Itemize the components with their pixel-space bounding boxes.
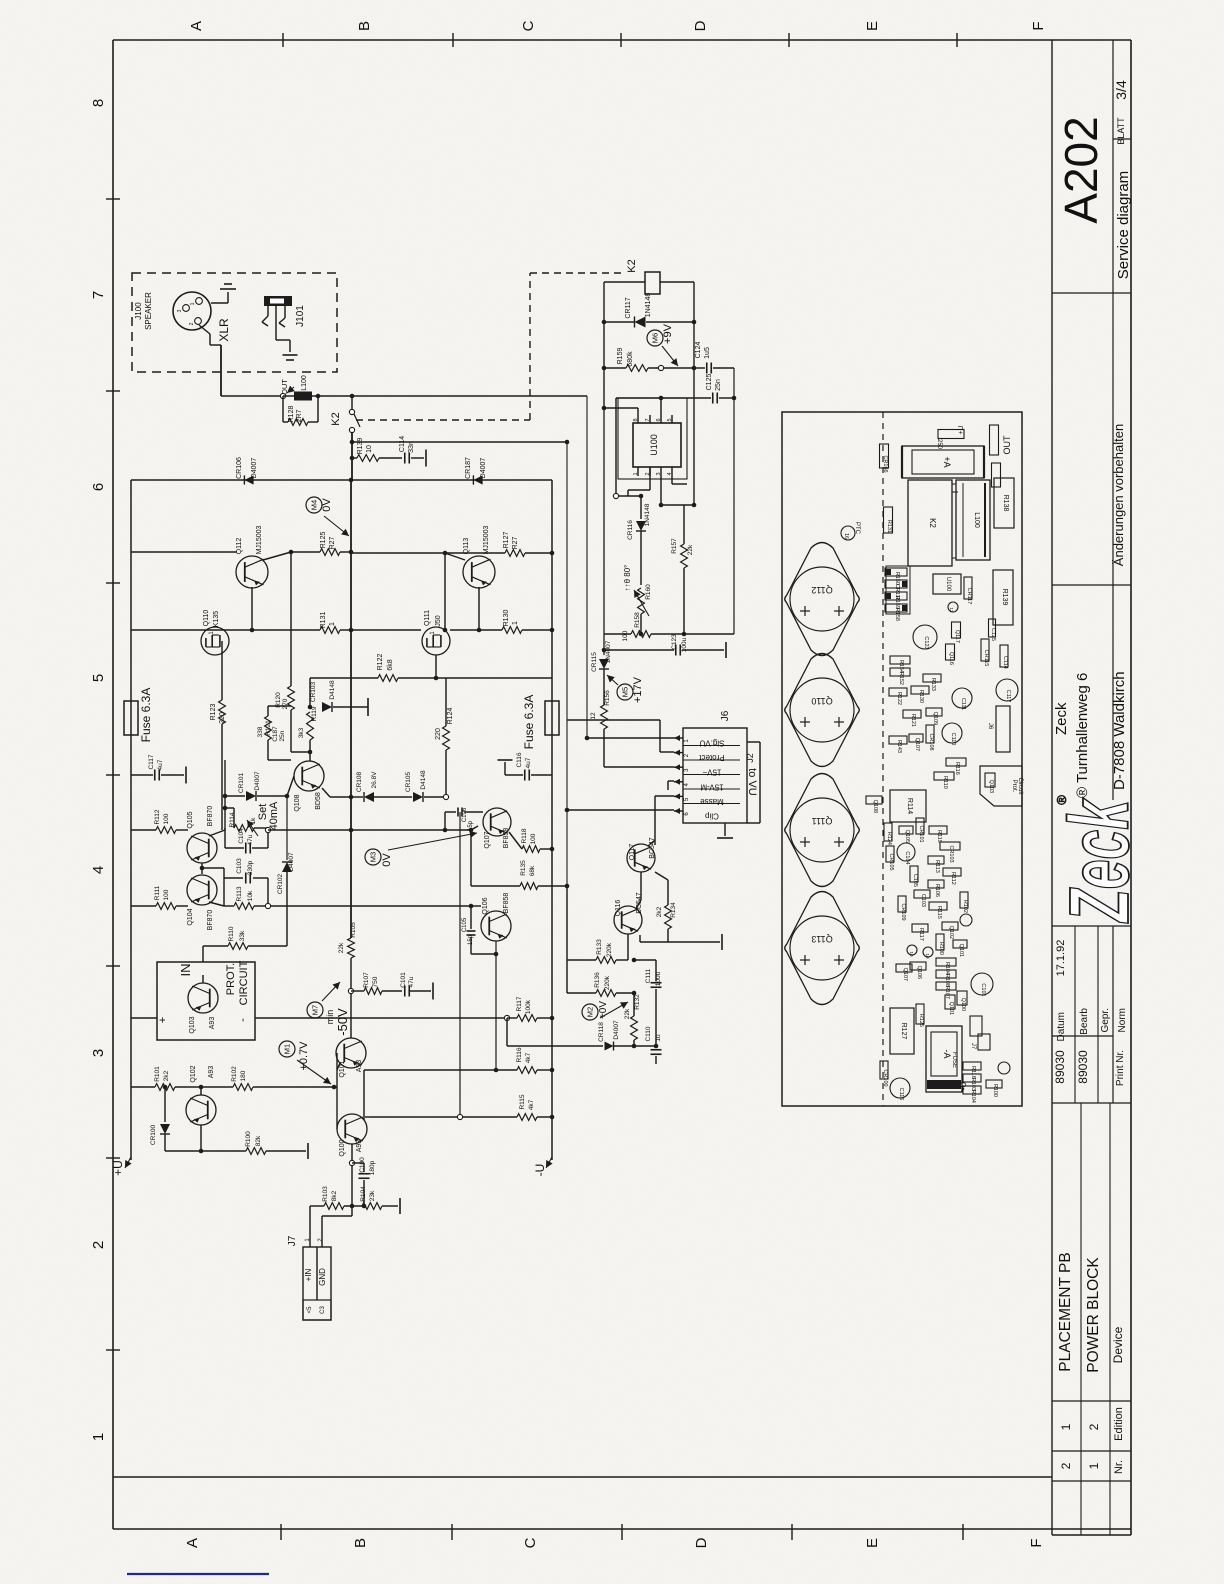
wire base row y830 [131,829,156,831]
svg-text:3: 3 [90,1049,107,1057]
svg-text:2k2: 2k2 [656,906,663,917]
wire R117 loop [506,1018,508,1046]
placement part R107 [936,982,956,990]
svg-text:D: D [693,1537,710,1548]
svg-text:R111: R111 [154,885,161,900]
svg-text:750: 750 [372,976,379,987]
svg-text:R102: R102 [962,900,968,913]
svg-text:C116: C116 [898,1088,904,1101]
placement part CR100 [880,1061,888,1079]
svg-text:Q113: Q113 [463,538,470,555]
wire k2 right rail [693,282,695,505]
svg-text:C114: C114 [399,436,406,452]
title block grid [1051,40,1053,1535]
svg-text:6: 6 [90,483,107,491]
svg-text:J6: J6 [987,723,993,730]
svg-text:MJ15003: MJ15003 [256,525,263,554]
svg-text:C111: C111 [960,698,966,710]
svg-text:C114: C114 [1002,656,1008,669]
svg-text:Q110: Q110 [203,610,210,627]
placement part Q107 [909,734,923,742]
svg-text:8: 8 [90,99,107,107]
placement part R115 [929,902,947,910]
svg-text:R101: R101 [154,1066,161,1082]
svg-text:220k: 220k [604,975,611,990]
placement part C114 [1000,645,1008,667]
wire +rail top [131,479,552,481]
svg-text:U100: U100 [649,434,659,456]
svg-text:89030: 89030 [1053,1050,1067,1084]
svg-text:1u5: 1u5 [704,347,711,359]
svg-text:D4007: D4007 [480,458,487,479]
svg-text:A93: A93 [209,1017,216,1030]
svg-text:C103: C103 [920,894,926,907]
placement transistor Q112 TO-3 [785,543,860,656]
svg-text:338: 338 [257,726,264,737]
svg-text:8: 8 [633,418,639,421]
wire XLR pin2 out [199,325,210,334]
svg-text:R116: R116 [516,1047,523,1062]
svg-text:Q103: Q103 [988,780,994,793]
svg-text:R121: R121 [910,714,916,727]
svg-text:Sig.VU: Sig.VU [699,739,724,748]
svg-text:R158: R158 [634,612,641,628]
svg-text:J100: J100 [134,302,143,320]
ground at R100 [307,1143,309,1159]
svg-text:CR109: CR109 [900,903,906,920]
placement part Q101 [953,940,967,948]
svg-text:C123: C123 [671,634,678,650]
svg-text:Protect: Protect [699,753,725,762]
svg-text:C124: C124 [695,342,702,359]
svg-text:3: 3 [177,309,183,312]
placement part R158 [885,604,907,612]
svg-text:J7: J7 [287,1235,298,1246]
placement part R100 [936,934,944,950]
svg-text:CR108: CR108 [928,733,934,750]
svg-text:R105: R105 [350,922,357,938]
svg-text:M5: M5 [621,687,630,697]
wire Q111 source [435,655,437,678]
svg-text:CR101: CR101 [918,825,924,842]
svg-text:A: A [184,1538,201,1548]
svg-text:C105: C105 [462,917,468,932]
placement part CR109 [898,896,906,912]
svg-text:-50V: -50V [335,1008,350,1036]
svg-text:C187: C187 [272,726,279,742]
svg-text:Nr.: Nr. [1113,1460,1125,1474]
svg-text:R112: R112 [950,872,956,885]
svg-text:Q102: Q102 [948,926,954,939]
svg-text:R130: R130 [918,690,924,703]
wire Protect line [566,442,568,720]
svg-text:Zeck: Zeck [1052,797,1146,923]
svg-text:Q109: Q109 [932,712,938,725]
svg-text:R102: R102 [231,1066,238,1082]
placement part C110 [942,723,962,743]
svg-text:C103: C103 [236,858,243,874]
svg-text:D4007: D4007 [613,1020,620,1040]
placement part CR111 [885,580,907,588]
svg-text:PTC: PTC [854,522,860,535]
svg-text:R112: R112 [154,809,161,824]
svg-text:+9V: +9V [662,323,674,344]
svg-text:C125: C125 [706,374,713,391]
svg-text:E: E [864,1538,881,1548]
svg-text:C: C [522,1537,539,1548]
placement dashed divider [882,412,884,1106]
svg-text:C117: C117 [1005,690,1011,703]
svg-text:C117: C117 [148,754,155,769]
svg-text:CR115: CR115 [983,650,989,667]
svg-text:220: 220 [435,728,442,740]
svg-text:BF870: BF870 [207,910,214,931]
svg-text:+: + [157,1017,169,1023]
placement part R100 [986,1080,1002,1088]
svg-text:33k: 33k [239,930,246,941]
placement L100 [956,480,990,560]
svg-text:CR116: CR116 [627,520,634,540]
svg-text:3k3: 3k3 [298,727,305,738]
svg-text:K2: K2 [330,412,342,425]
svg-text:6k8: 6k8 [387,659,394,670]
svg-text:M3: M3 [369,852,378,862]
svg-text:C104: C104 [904,851,910,864]
svg-text:C116: C116 [516,752,523,767]
test point M5 +17V [617,684,633,700]
placement part C104 [897,843,915,861]
placement part R131 [884,507,893,533]
svg-text:CR108: CR108 [356,771,363,792]
placement part Q103 [985,773,995,787]
wire row y1018 [131,1017,157,1019]
wire Sig.VU line [352,395,587,397]
svg-text:Q107: Q107 [902,968,908,981]
svg-text:A: A [188,21,205,31]
svg-text:Q100: Q100 [960,998,966,1011]
svg-text:PLACEMENT PB: PLACEMENT PB [1057,1252,1074,1371]
svg-text:BLATT: BLATT [1116,117,1126,145]
placement part C116 [890,1078,910,1098]
svg-text:J6: J6 [720,710,731,721]
placement R127 [890,1008,914,1054]
svg-text:POWER BLOCK: POWER BLOCK [1085,1257,1102,1373]
placement part C105 [910,866,918,882]
svg-text:+0.7V: +0.7V [298,1041,310,1071]
svg-text:17.1.92: 17.1.92 [1055,940,1067,977]
placement part R106 [928,880,944,888]
svg-text:2: 2 [90,1241,107,1249]
svg-text:1: 1 [90,1433,107,1441]
svg-text:R116: R116 [954,762,960,775]
connector J101 jack [264,296,292,306]
svg-text:BF858: BF858 [503,828,510,849]
svg-text:R114: R114 [906,798,913,814]
svg-text:+IN: +IN [304,1268,313,1281]
svg-text:C105: C105 [912,874,918,887]
connector area dashed box [132,273,337,372]
wire out row y830 right [287,829,351,831]
svg-text:FUSE: FUSE [951,1052,957,1068]
svg-text:2k2: 2k2 [163,1070,170,1081]
svg-text:R115: R115 [519,1094,526,1109]
svg-text:Bearb: Bearb [1079,1008,1090,1035]
svg-text:R124: R124 [447,708,454,725]
svg-text:100: 100 [163,813,170,824]
wire XLR pin1 to ground [211,302,228,304]
wire base row y906 [131,905,156,907]
svg-text:100: 100 [163,889,170,900]
svg-text:R124: R124 [886,832,892,845]
placement part R159 [885,592,907,600]
svg-text:R110: R110 [942,776,948,789]
svg-text:M4: M4 [310,500,319,510]
svg-text:R127: R127 [900,1023,907,1040]
svg-text:1N4148: 1N4148 [645,293,652,318]
svg-text:Masse: Masse [700,797,724,806]
svg-text:PROT.: PROT. [225,963,237,995]
svg-text:Q101: Q101 [948,1002,954,1015]
svg-text:5: 5 [90,674,107,682]
svg-text:R131: R131 [320,612,327,629]
svg-text:R159: R159 [617,348,624,365]
svg-text:K2: K2 [626,259,638,272]
placement part Q101 [945,995,955,1009]
svg-text:CR166: CR166 [882,455,888,472]
svg-text:1: 1 [512,621,519,625]
svg-text:CR115: CR115 [591,652,598,672]
svg-text:R125: R125 [320,532,327,549]
svg-text:C125: C125 [990,628,996,641]
svg-text:10k: 10k [247,890,254,901]
svg-text:4: 4 [667,472,673,475]
svg-text:Q104: Q104 [187,908,194,925]
svg-text:6: 6 [656,418,662,421]
placement part Q105 [899,826,913,834]
placement part C125 [989,619,996,637]
test point M1 +0.7V [279,1041,295,1057]
placement part R121 [903,710,921,718]
svg-text:Q105: Q105 [187,811,194,828]
placement part Q100 [957,991,967,1005]
placement part C123 [913,625,937,649]
wire OUT sense line [352,441,567,443]
placement transistor Q110 TO-3 [785,654,860,767]
svg-text:-: - [237,1018,249,1022]
svg-text:R106: R106 [934,884,940,897]
placement prot circuit [980,766,1022,806]
svg-text:CR106: CR106 [236,457,243,479]
svg-text:R125: R125 [918,1014,924,1027]
placement part Q109 [926,708,942,716]
svg-text:C104: C104 [238,828,245,844]
svg-text:R119: R119 [936,830,942,843]
placement part R124 [884,823,892,841]
placement part R103 [963,1074,981,1082]
svg-text:Q105: Q105 [904,830,910,843]
placement part R154 [890,656,910,664]
svg-text:M2: M2 [586,1007,595,1017]
scan artifact blue line [127,1573,269,1575]
svg-text:89030: 89030 [1076,1050,1090,1084]
svg-text:D4148: D4148 [420,770,427,790]
svg-text:2: 2 [1059,1462,1073,1469]
placement part R112 [943,868,961,876]
svg-text:7: 7 [645,418,651,421]
svg-text:-A: -A [942,1050,952,1059]
svg-text:L100: L100 [973,512,980,528]
ground at R104 [399,1198,401,1214]
svg-text:R130: R130 [503,610,510,627]
svg-text:CR103: CR103 [948,845,954,862]
placement part CR108 [926,725,934,743]
wire U100 pins [616,397,661,399]
svg-text:SPEAKER: SPEAKER [144,292,153,330]
IC U100 [618,398,687,479]
connector J100 XLR [173,292,211,330]
placement part C103 [914,890,930,898]
svg-text:D4007: D4007 [251,458,258,479]
svg-text:Norm: Norm [1117,1008,1128,1032]
svg-text:R139: R139 [1001,589,1008,606]
svg-text:R107: R107 [363,972,370,988]
svg-text:BF858: BF858 [503,893,510,914]
svg-text:M7: M7 [311,1005,320,1015]
svg-text:OUT: OUT [1002,435,1012,455]
svg-text:15V~: 15V~ [702,768,721,777]
svg-text:68k: 68k [529,865,536,876]
placement part CR117 [964,577,972,599]
svg-text:Clip: Clip [705,812,719,821]
test point M7 min -50V [307,1002,323,1018]
svg-text:Circuit: Circuit [1017,777,1023,794]
svg-text:R100: R100 [992,1084,998,1097]
svg-text:1: 1 [633,472,639,475]
wire Q112 emitter [290,552,292,630]
svg-text:Q107: Q107 [914,738,920,751]
svg-text:Prot.: Prot. [1011,780,1017,793]
svg-text:min: min [325,1010,335,1025]
svg-text:Änderungen vorbehalten: Änderungen vorbehalten [1111,424,1126,566]
placement part R113 [928,856,944,864]
svg-text:25n: 25n [715,379,722,391]
svg-text:Q111: Q111 [424,610,431,626]
svg-text:R143: R143 [896,740,902,753]
svg-text:Edition: Edition [1113,1407,1125,1441]
svg-text:C101: C101 [400,972,407,988]
svg-text:CR117: CR117 [625,297,632,318]
placement part R110 [934,772,954,780]
svg-text:R100: R100 [938,942,944,955]
placement relay K2 [908,480,952,566]
svg-text:B: B [356,21,373,31]
test point M3 0V [365,849,381,865]
svg-text:5: 5 [667,418,673,421]
svg-text:Q112: Q112 [236,538,243,555]
svg-text:J101: J101 [295,305,306,327]
placement part CR101 [916,818,924,834]
wire Q106 emitter down [495,941,497,1070]
ground at C101 [432,983,434,1000]
fuse F2 6.3A right [545,701,559,735]
placement part CR166 [880,444,889,468]
dashed link to relay K2 [356,419,530,421]
svg-text:10: 10 [909,951,914,957]
svg-text:0V: 0V [321,498,333,512]
svg-text:C110: C110 [950,733,956,746]
svg-text:C123: C123 [923,636,929,649]
placement part CR103 [940,842,960,850]
svg-text:CR118: CR118 [598,1022,605,1042]
svg-text:4k7: 4k7 [525,1052,532,1063]
placement R138 [994,478,1014,528]
placement board outline [782,412,1022,1106]
placement part CR115 [981,639,989,661]
svg-text:F: F [1028,1538,1045,1547]
svg-text:Q101: Q101 [958,944,964,957]
svg-text:Q110: Q110 [811,696,832,706]
placement part R150 [885,568,907,576]
svg-text:R160: R160 [645,584,652,600]
svg-text:R133: R133 [930,678,936,691]
svg-text:+U: +U [958,425,965,434]
svg-text:100: 100 [622,630,629,641]
svg-text:C110: C110 [645,1026,652,1041]
placement R139 [993,570,1013,625]
svg-text:Q113: Q113 [811,934,832,944]
placement part R108 [936,970,956,978]
svg-text:CR100: CR100 [150,1124,157,1145]
svg-text:GND: GND [318,1268,327,1286]
wire 15V-M line [668,780,674,782]
svg-text:XLR: XLR [217,318,231,342]
svg-text:R104: R104 [360,1186,367,1202]
placement part Q102 [942,922,958,930]
svg-text:<5: <5 [307,1306,313,1314]
placement U100 [933,574,961,594]
svg-text:R131: R131 [886,520,892,533]
svg-text:12: 12 [590,712,597,720]
placement part R130 [911,686,929,694]
svg-text:220k: 220k [606,942,613,957]
placement J7 [970,1016,982,1036]
svg-text:R123: R123 [210,704,217,721]
svg-text:Datum: Datum [1056,1012,1067,1041]
svg-text:33n: 33n [408,441,415,453]
svg-text:1u: 1u [655,1034,662,1042]
ground at Q116 [721,934,723,950]
svg-text:CR187: CR187 [465,457,472,479]
svg-text:R127: R127 [503,532,510,549]
placement part R143 [889,736,907,744]
wire Clip line [567,809,674,811]
placement part R125 [916,1004,924,1024]
svg-text:16: 16 [843,533,849,539]
svg-text:Service diagram: Service diagram [1115,171,1132,279]
svg-text:R103: R103 [322,1186,329,1202]
block PROT CIRCUIT [157,962,255,1040]
placement fuse -A [926,1026,962,1092]
svg-text:R134: R134 [670,902,677,918]
svg-text:8k2: 8k2 [331,1190,338,1201]
placement part CR105 [886,846,894,862]
placement part C111 [952,688,972,708]
placement part Q116 [946,644,955,660]
placement part R104 [936,958,956,966]
svg-text:4u7: 4u7 [525,757,532,768]
svg-text:R139: R139 [357,438,364,455]
svg-text:10: 10 [925,953,930,959]
